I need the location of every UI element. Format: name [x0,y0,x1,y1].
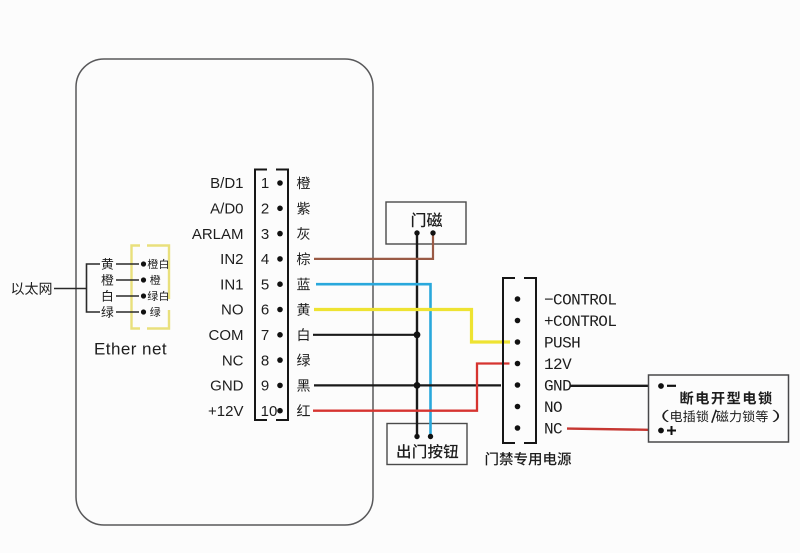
ethernet bracket [87,264,101,312]
ethernet row 橙 wire [116,279,139,281]
pin 7 wire color label 白 [299,328,309,341]
wire black: pin9 GND to power GND [314,384,501,386]
svg-text:GND: GND [544,378,571,396]
ethernet row 黄 wire [116,263,139,265]
pin 3 dot [277,231,283,237]
wire black: pin7 COM to junction [313,334,417,336]
pin 8 dot [277,357,283,363]
lock title 断电开型电锁 [680,391,693,405]
svg-text:3: 3 [261,226,269,243]
pin 4 dot [277,256,283,262]
electric lock box 断电开型电锁 [649,375,789,442]
svg-text:IN2: IN2 [220,251,243,268]
svg-text:A/D0: A/D0 [210,201,243,218]
svg-text:Ether net: Ether net [94,340,167,359]
wire yellow: pin6 NO to PUSH [314,310,510,343]
svg-text:1: 1 [261,175,269,192]
svg-text:COM: COM [209,327,244,344]
pin 2 dot [277,206,283,212]
svg-text:−CONTROL: −CONTROL [544,292,616,310]
ethernet label 以太网 [12,282,24,294]
svg-text:6: 6 [261,302,269,319]
junction dot GND [414,382,421,389]
pin 9 wire color label 黑 [297,379,310,391]
lock subtitle (电插锁/磁力锁等) [662,410,669,422]
pin 6 dot [277,307,283,313]
door sensor box 门磁 [386,202,466,244]
ethernet row 绿 label [101,306,113,318]
svg-text:ARLAM: ARLAM [192,226,244,243]
wire brown: pin4 IN2 to door sensor [314,233,433,259]
pin 5 wire color label 蓝 [297,278,310,291]
door sensor terminal dots [414,230,419,235]
pin 10 dot [277,408,283,414]
pin 6 wire color label 黄 [297,303,310,316]
svg-text:2: 2 [261,201,269,218]
power pin dot +CONTROL [515,318,521,324]
svg-text:IN1: IN1 [220,276,243,293]
svg-text:12V: 12V [544,356,572,374]
power pin dot NC [515,425,521,431]
ethernet row 橙 dot [141,277,146,282]
power pin dot PUSH [515,339,521,345]
pin 1 wire color label 橙 [297,176,310,189]
10-pin terminal block J1 [255,170,288,421]
ethernet row 绿 wire [116,311,139,313]
power pin dot GND [515,382,521,388]
exit button terminal dots [414,434,419,439]
wire black vertical: door sensor to exit button [416,233,418,437]
pin 10 wire color label 红 [297,404,310,416]
ethernet row 绿 dot [141,309,146,314]
pin 5 dot [277,281,283,287]
svg-text:NC: NC [222,352,244,369]
ethernet row pair label 绿白 [148,291,158,301]
ethernet row pair label 橙白 [148,259,158,269]
svg-text:+CONTROL: +CONTROL [544,313,616,331]
power pin dot 12V [515,361,521,367]
pin 9 dot [277,383,283,389]
ethernet row pair label 绿 [150,307,160,317]
pin 1 dot [277,180,283,186]
pin 3 wire color label 灰 [297,227,310,240]
ethernet connector outline (yellow) [132,246,170,329]
pin 4 wire color label 棕 [297,252,310,265]
svg-text:B/D1: B/D1 [210,175,243,192]
svg-text:5: 5 [261,276,269,293]
svg-text:PUSH: PUSH [544,335,580,353]
svg-text:9: 9 [261,378,269,395]
svg-text:NO: NO [544,399,562,417]
lock plus terminal [658,428,664,434]
pin 7 dot [277,332,283,338]
lock minus terminal [658,383,664,389]
svg-text:GND: GND [210,378,244,395]
svg-text:4: 4 [261,251,269,268]
device outline (access controller) [76,59,373,525]
wire red: pin10 +12V to power 12V [313,364,510,411]
pin 2 wire color label 紫 [297,202,310,215]
pin 8 wire color label 绿 [297,354,310,367]
ethernet row 白 dot [141,293,146,298]
ethernet row pair label 橙 [150,275,160,285]
wire red: power NC to lock plus [567,429,648,430]
svg-text:+12V: +12V [208,403,243,420]
ethernet row 橙 label [101,274,113,286]
power pin dot NO [515,404,521,410]
exit button box 出门按钮 [387,424,467,465]
ethernet row 黄 label [102,258,113,270]
svg-text:7: 7 [261,327,269,344]
access-control power supply connector [503,278,536,443]
wire from ethernet label [54,288,87,290]
ethernet row 白 wire [116,295,139,297]
ethernet row 白 label [103,290,112,302]
ethernet row 黄 dot [141,261,146,266]
wire blue: pin5 IN1 to exit button [316,284,431,436]
wire black: power GND to lock minus [570,385,648,387]
svg-text:10: 10 [261,403,278,420]
power pin dot -CONTROL [515,296,521,302]
svg-text:NO: NO [221,302,244,319]
junction dot COM [414,331,421,338]
svg-text:8: 8 [261,352,269,369]
power supply caption 门禁专用电源 [486,452,498,466]
svg-text:NC: NC [544,421,562,439]
